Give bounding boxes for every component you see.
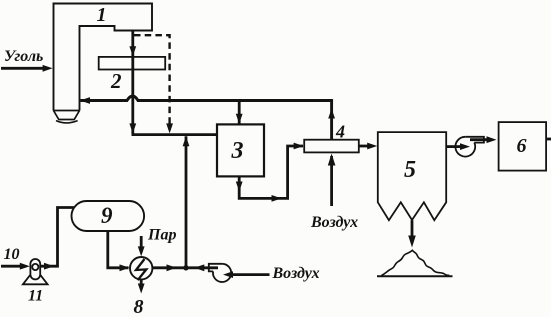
- pump 11 (vertical oval on triangle base): [23, 259, 48, 284]
- svg-text:1: 1: [97, 4, 107, 26]
- svg-text:9: 9: [101, 203, 113, 228]
- vessel 1 outlet dish: [56, 121, 78, 123]
- svg-text:4: 4: [335, 122, 345, 142]
- duct 4: [304, 140, 359, 153]
- blower fan (volute with outlet duct to left): [209, 264, 231, 282]
- svg-text:Воздух: Воздух: [272, 265, 320, 282]
- wire: condensate arrow down out of heat exchanger: [138, 279, 145, 293]
- feeder 2: [99, 57, 166, 70]
- vessel 1 (gasifier) outline: [54, 4, 153, 111]
- box 6: [499, 122, 546, 171]
- vessel 9 (horizontal drum): [72, 201, 145, 231]
- svg-text:Пар: Пар: [147, 227, 176, 244]
- wire: pump 11 outlet up to vessel 9: [40, 208, 74, 270]
- wire: heat exchanger outlet right to junction: [152, 264, 184, 271]
- svg-text:3: 3: [231, 138, 244, 164]
- wire: mix line into box 3 left side: [132, 133, 218, 136]
- wire: dashed bypass line from vessel 1 down to mix line: [134, 35, 173, 133]
- junction node (air + steam mix): [183, 265, 188, 270]
- wire: vessel 9 outlet down and right to heat exchanger: [108, 231, 130, 271]
- wire: blower outlet left to junction: [189, 264, 219, 271]
- svg-text:2: 2: [110, 69, 122, 93]
- svg-text:Уголь: Уголь: [4, 48, 43, 65]
- wire: air riser from junction up to mix line: [183, 136, 190, 267]
- wire: feed water arrow into pump 11: [1, 263, 30, 270]
- wire: recycle gas line from duct 4 up and left into vessel 1, with hop over vertical line: [80, 96, 335, 140]
- svg-text:11: 11: [28, 288, 43, 305]
- induced-draft fan (volute with outlet duct to right): [455, 137, 484, 157]
- wire: branch from recycle line down into box 3: [236, 101, 243, 124]
- svg-text:8: 8: [134, 296, 144, 317]
- wire: duct 4 outlet to separator 5: [359, 143, 377, 150]
- wire: fan outlet into box 6: [470, 136, 497, 143]
- wire: steam arrow down into heat exchanger: [138, 236, 145, 256]
- svg-text:10: 10: [4, 246, 20, 263]
- wire: ash drop from separator 5 to pile: [408, 220, 416, 247]
- svg-text:6: 6: [517, 135, 527, 157]
- wire: air arrow into blower from right: [223, 271, 270, 278]
- wire: separator 5 outlet to induced fan: [446, 143, 470, 150]
- wire: box 6 outlet to right edge: [546, 138, 551, 141]
- svg-text:5: 5: [404, 157, 416, 183]
- separator 5 with zigzag hopper bottom: [378, 132, 446, 220]
- wire: coal feed arrow into vessel 1: [1, 65, 53, 72]
- wire: box 3 bottom outlet to duct 4: [236, 143, 304, 202]
- wire: air arrow up into duct 4 bottom: [328, 154, 336, 207]
- vessel 1 hopper: [54, 111, 80, 120]
- svg-text:Воздух: Воздух: [310, 214, 358, 231]
- box 3: [217, 124, 264, 176]
- ash pile mound: [377, 250, 453, 276]
- wire: solid line from vessel 1 down through feeder 2 to mix line: [129, 31, 136, 135]
- heat exchanger (circle with zigzag): [130, 257, 152, 280]
